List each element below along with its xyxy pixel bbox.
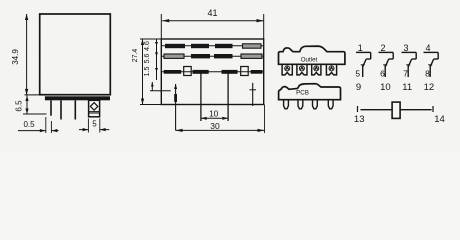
svg-text:5: 5 (355, 68, 360, 78)
svg-text:34.9: 34.9 (11, 49, 20, 65)
svg-text:8: 8 (425, 68, 430, 78)
svg-text:14: 14 (434, 114, 445, 125)
svg-text:6: 6 (380, 68, 385, 78)
svg-text:9: 9 (356, 82, 361, 93)
svg-text:5.6: 5.6 (144, 54, 151, 64)
svg-text:4: 4 (425, 43, 430, 53)
svg-text:41: 41 (207, 8, 217, 18)
svg-text:2: 2 (380, 43, 385, 53)
svg-text:0.5: 0.5 (23, 120, 35, 129)
svg-text:4.6: 4.6 (144, 41, 151, 51)
svg-text:10: 10 (380, 82, 391, 93)
svg-text:6.5: 6.5 (15, 100, 24, 112)
svg-text:3: 3 (403, 43, 408, 53)
svg-text:11: 11 (402, 82, 412, 93)
svg-text:1: 1 (358, 43, 363, 53)
svg-text:30: 30 (210, 121, 220, 131)
svg-text:27.4: 27.4 (132, 49, 139, 63)
svg-text:PCB: PCB (296, 90, 309, 97)
svg-text:Outlet: Outlet (301, 56, 318, 63)
svg-text:12: 12 (424, 82, 435, 93)
svg-text:13: 13 (354, 114, 365, 125)
svg-text:10: 10 (209, 108, 219, 118)
svg-text:7: 7 (403, 68, 408, 78)
svg-text:5: 5 (92, 120, 97, 129)
svg-text:1.5: 1.5 (144, 67, 151, 77)
